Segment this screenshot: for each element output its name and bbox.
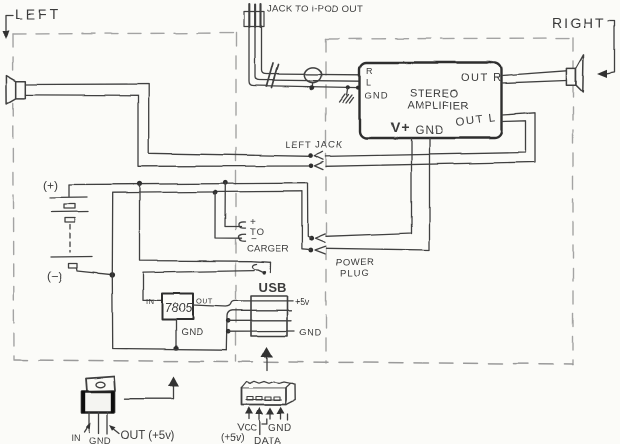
wire amp GND to power plug: [326, 139, 430, 251]
svg-text:GND: GND: [365, 91, 389, 102]
svg-text:IN: IN: [146, 297, 155, 306]
wire switch to 7805 IN: [143, 271, 254, 301]
pin arrows VCC DATA DATA GND: [245, 407, 285, 419]
svg-text:GND: GND: [416, 125, 445, 137]
node junction +rail to charger: [223, 180, 228, 185]
node left jack tip: [308, 153, 313, 158]
wire usb data1: [229, 319, 291, 321]
usb plug drawing J1 package: [242, 381, 295, 404]
wire battery - to gnd node: [77, 269, 113, 275]
connector left jack arrow ring: [315, 162, 324, 170]
switch SW1: [252, 262, 270, 274]
node gnd main junction: [110, 272, 116, 278]
svg-text:OUT: OUT: [196, 297, 213, 306]
label POWER PLUG: [336, 257, 374, 280]
label OUT (+5v) pin: [110, 425, 175, 442]
wire + rail down to switch: [140, 184, 271, 262]
wire battery + rail: [69, 183, 308, 184]
svg-text:GND: GND: [89, 436, 112, 444]
node junction gnd to charger: [213, 190, 218, 195]
svg-text:JACK TO i-POD OUT: JACK TO i-POD OUT: [267, 4, 363, 15]
dashed enclosure right box: [326, 38, 573, 364]
node junction +rail to switch: [137, 181, 142, 186]
label RIGHT: [552, 15, 615, 78]
svg-text:GND: GND: [181, 327, 204, 338]
wire gnd bottom rail: [112, 275, 227, 350]
wire OUT R - to right speaker: [502, 81, 566, 84]
ground symbol on jack shield: [339, 85, 354, 103]
svg-text:R: R: [366, 66, 373, 76]
svg-text:+5v: +5v: [295, 297, 310, 307]
svg-text:RIGHT: RIGHT: [552, 15, 606, 31]
arrow pointing at usb socket: [261, 347, 273, 371]
connector power plug arrow GND: [315, 246, 326, 254]
wire SPK-L - to left jack: [25, 95, 308, 166]
svg-text:(+): (+): [43, 178, 58, 192]
svg-text:(−): (−): [47, 269, 62, 283]
label DATA: [254, 419, 281, 444]
node jack gnd junction: [309, 85, 314, 90]
node power plug V+: [309, 236, 314, 241]
svg-text:LEFT JACK: LEFT JACK: [286, 140, 344, 150]
svg-text:STEREO: STEREO: [410, 88, 459, 100]
svg-text:GND: GND: [268, 423, 292, 434]
svg-text:AMPLIFIER: AMPLIFIER: [408, 100, 470, 112]
label VCC (+5v): [221, 422, 258, 444]
regulator U2 7805: [146, 294, 213, 339]
wire OUT L ring loop: [326, 121, 526, 157]
regulator package drawing (7805 TO-220): [82, 377, 115, 435]
connector power plug arrow V+: [315, 234, 325, 242]
wire SPK-L + to left jack: [25, 84, 310, 156]
svg-text:GND: GND: [299, 328, 321, 338]
wire OUT R + to right speaker: [502, 71, 566, 76]
wire 7805 OUT to USB +5v: [193, 301, 293, 307]
wire gnd rail drop to power plug: [302, 191, 310, 249]
inline connector circle on jack cable: [304, 67, 321, 82]
speaker SPK-R: [566, 55, 583, 92]
node usb data1 junction: [226, 318, 231, 323]
svg-text:PLUG: PLUG: [340, 269, 370, 280]
label IN pin: [71, 423, 91, 444]
svg-text:POWER: POWER: [336, 257, 374, 268]
svg-text:OUT (+5v): OUT (+5v): [121, 430, 175, 442]
wire gnd rail up and right: [112, 191, 302, 274]
usb socket J1: [251, 296, 287, 336]
svg-text:CARGER: CARGER: [247, 244, 289, 255]
wire charger + tap: [225, 183, 242, 227]
wire jack R conductor: [262, 26, 360, 75]
wire usb gnd: [229, 330, 294, 332]
jack plug to i-pod: [244, 4, 264, 27]
svg-text:LEFT: LEFT: [15, 6, 61, 22]
wire 7805 GND pin: [175, 320, 177, 348]
wire charger - tap: [215, 193, 242, 239]
svg-text:USB: USB: [258, 280, 287, 295]
dashed enclosure bottom edge: [14, 360, 573, 364]
wire amp V+ to power plug: [326, 139, 412, 237]
svg-text:DATA: DATA: [254, 436, 281, 444]
svg-text:L: L: [366, 78, 371, 88]
svg-text:7805: 7805: [165, 301, 193, 315]
battery BT1: [43, 178, 92, 283]
label GND: [268, 414, 292, 434]
label LEFT: [3, 6, 62, 39]
wire jack GND conductor: [249, 26, 359, 88]
node power plug GND: [308, 248, 313, 253]
connector charger hook +: [239, 222, 246, 228]
wire + rail drop to power plug: [308, 183, 312, 238]
connector left jack arrow tip: [314, 152, 323, 160]
svg-text:OUT R: OUT R: [461, 72, 503, 84]
connector charger hook -: [239, 235, 246, 241]
wire jack L conductor: [255, 26, 359, 81]
node usb data2 junction: [226, 329, 231, 334]
label TO CHARGER: [247, 217, 289, 255]
wire OUT L tip loop: [326, 113, 535, 167]
cable break slashes: [267, 63, 279, 88]
svg-text:IN: IN: [71, 434, 80, 444]
node left jack ring: [309, 164, 314, 169]
node amp gnd entry: [356, 86, 360, 90]
wire gnd rail up to usb: [227, 310, 291, 349]
speaker SPK-L: [6, 76, 25, 104]
arrow from package to schematic: [125, 377, 180, 399]
svg-text:(+5v): (+5v): [221, 433, 244, 444]
stereo amplifier U1: [360, 63, 503, 139]
dashed enclosure left box: [13, 33, 236, 361]
node 7805 gnd junction: [174, 346, 179, 351]
svg-text:V+: V+: [391, 119, 411, 135]
